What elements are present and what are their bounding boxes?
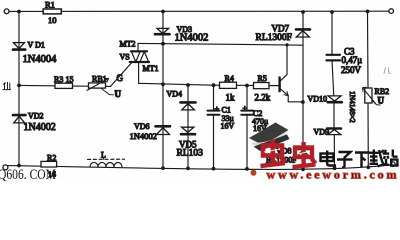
diode VD7 (256, 23, 311, 43)
svg-text:1N4148×2: 1N4148×2 (348, 91, 357, 123)
diode VD1 (13, 41, 57, 65)
watermark bug highlights (264, 149, 310, 154)
label 1N4148x2 vertical (348, 91, 357, 123)
svg-text:RB1: RB1 (92, 74, 107, 83)
wire MT2 horizontal (y44) (138, 43, 303, 45)
svg-text:1N4002: 1N4002 (175, 33, 209, 44)
diode VD5 (177, 127, 204, 158)
node C1 bottom (212, 167, 216, 171)
svg-text:G: G (117, 73, 124, 83)
svg-text:1k: 1k (226, 92, 236, 102)
diode VD10 (308, 94, 342, 103)
wire triac MT1 down and right to R4 row (139, 62, 279, 86)
svg-text:R1: R1 (45, 0, 55, 10)
capacitor C1 (208, 85, 235, 168)
wire gate diagonal to triac (111, 62, 133, 86)
diode VD8 (266, 146, 310, 164)
svg-text:+: + (243, 104, 248, 113)
wire VD3 vertical (162, 12, 164, 169)
wire VD7/VD8 vertical (302, 12, 304, 169)
wire VD4/VD5 vertical (187, 85, 189, 168)
svg-text:15: 15 (66, 75, 74, 84)
wire left vertical (18, 12, 20, 166)
watermark www.eeworm.com (251, 167, 397, 181)
node VD3 bottom (161, 166, 165, 170)
node collector top (285, 43, 288, 46)
wire triac MT2 stub (137, 43, 139, 51)
svg-text:MT1: MT1 (143, 64, 159, 73)
svg-text:0,47μ: 0,47μ (342, 55, 363, 65)
char xia (355, 153, 370, 168)
node VD9 bottom (333, 166, 337, 170)
diode VD2 (13, 112, 56, 133)
node RB2 top (366, 10, 370, 14)
node C1 top (212, 83, 216, 87)
svg-text:1N4002: 1N4002 (130, 131, 157, 141)
svg-text:V D1: V D1 (28, 41, 45, 50)
node VD4 bottom (186, 167, 190, 171)
capacitor C3 (327, 46, 363, 75)
svg-text:2.2k: 2.2k (255, 93, 271, 103)
node VD7 top (301, 10, 305, 14)
wire mid-left horizontal (R3/RB1 row) (19, 85, 111, 86)
node VD3 y44 (161, 42, 165, 46)
svg-text:+: + (215, 104, 220, 113)
label input 进 (3, 82, 12, 90)
terminal top-left (4, 9, 9, 14)
svg-text:R2: R2 (47, 154, 56, 163)
wire C3/VD10/VD9 vertical (332, 12, 335, 168)
svg-text:VD7: VD7 (272, 23, 290, 33)
diode VD6 (130, 122, 171, 141)
node between R4 R5 (245, 84, 249, 88)
node VD3 top (161, 10, 165, 14)
watermark Q606.COM grey (0, 167, 56, 183)
svg-text:U: U (115, 89, 122, 99)
resistor R2 (41, 154, 57, 179)
watermark text dianzi xiazaizhan (321, 150, 398, 168)
svg-text:1N4004: 1N4004 (23, 54, 58, 65)
terminal bottom-left (3, 165, 8, 170)
watermark bug char 1 (261, 140, 286, 167)
node VD4 top (186, 83, 190, 87)
char dian (321, 151, 337, 166)
svg-text:VD9: VD9 (314, 127, 330, 136)
svg-text:R3: R3 (54, 75, 63, 84)
wire RB2 vertical (367, 12, 370, 168)
node left mid junction (17, 84, 21, 88)
resistor R5 (254, 74, 271, 102)
resistor R3 (54, 75, 74, 89)
svg-text:RL1300F: RL1300F (256, 33, 292, 43)
svg-text:VD4: VD4 (167, 89, 183, 98)
potentiometer RB2 (363, 87, 390, 106)
node VD3 y84 (161, 82, 165, 86)
svg-text:Q606. COM: Q606. COM (0, 167, 56, 181)
node bottom-left junction (17, 164, 21, 168)
node C3 top (330, 10, 334, 14)
diode VD4 (167, 89, 196, 110)
char zhan (382, 150, 397, 166)
wire top horizontal (9, 10, 389, 12)
potentiometer RB1 (87, 74, 122, 99)
svg-text:U: U (378, 96, 385, 106)
char zi (337, 152, 353, 168)
watermark graduation cap (249, 123, 290, 152)
wire bottom horizontal (8, 165, 391, 170)
svg-text:VD10: VD10 (308, 94, 328, 103)
svg-text:10: 10 (48, 15, 57, 25)
node emitter to VD8 line (301, 100, 305, 104)
node RB2 bottom (366, 165, 370, 169)
svg-text:VS: VS (120, 52, 130, 61)
svg-text:RL103: RL103 (177, 149, 204, 159)
svg-text:R4: R4 (225, 74, 234, 83)
diode VD9 (314, 127, 342, 136)
label load 儿 faint (384, 68, 390, 74)
triac VS (120, 39, 159, 72)
terminal bottom-right (391, 162, 396, 167)
node top-left junction (17, 10, 21, 14)
svg-text:1N4002: 1N4002 (24, 122, 56, 133)
inductor L (88, 151, 125, 167)
svg-text:R5: R5 (258, 74, 267, 83)
svg-text:250V: 250V (341, 65, 362, 75)
watermark bug char 2 (293, 142, 316, 168)
node VD7 bottom (301, 167, 305, 171)
svg-text:16V: 16V (221, 121, 235, 130)
resistor R4 (220, 74, 237, 103)
transistor VT (269, 45, 303, 102)
svg-text:MT2: MT2 (120, 39, 136, 48)
capacitor C2 (241, 86, 268, 169)
svg-text:VD2: VD2 (28, 112, 44, 121)
terminal top-right (389, 9, 394, 14)
diode VD3 (155, 25, 208, 44)
char zai (370, 150, 386, 167)
node G label (117, 73, 124, 83)
node C2 bottom (245, 167, 249, 171)
resistor R1 (43, 0, 61, 25)
svg-text:RB2: RB2 (375, 87, 390, 96)
